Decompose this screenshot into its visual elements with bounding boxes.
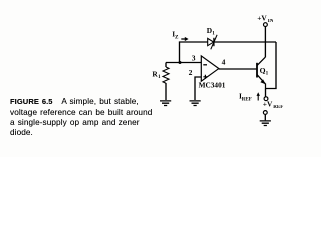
svg-text:Z: Z	[175, 34, 179, 40]
svg-text:+V: +V	[263, 100, 273, 109]
svg-text:1: 1	[158, 74, 161, 80]
svg-text:3: 3	[192, 54, 196, 63]
svg-text:+V: +V	[257, 14, 267, 23]
svg-text:1: 1	[212, 31, 215, 37]
svg-text:REF: REF	[273, 105, 283, 110]
svg-text:1: 1	[266, 71, 269, 77]
svg-text:4: 4	[222, 57, 226, 66]
svg-text:2: 2	[189, 68, 193, 77]
svg-text:IN: IN	[268, 19, 274, 24]
svg-text:REF: REF	[242, 97, 252, 102]
svg-text:MC3401: MC3401	[199, 80, 226, 89]
